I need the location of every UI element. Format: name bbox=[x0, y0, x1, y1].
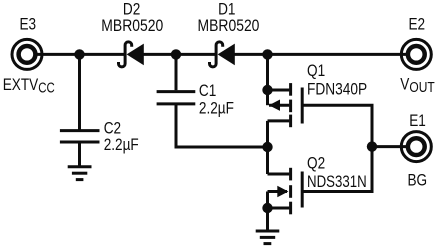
label E3 bbox=[20, 15, 37, 34]
label Q2 bbox=[307, 154, 325, 173]
wire Q2 body-source to ground bbox=[266, 192, 269, 230]
label C2 bbox=[104, 119, 121, 138]
svg-text:BG: BG bbox=[408, 171, 428, 190]
diode D2 MBR0520 bbox=[119, 42, 144, 67]
svg-text:2.2µF: 2.2µF bbox=[199, 99, 234, 118]
wire D2 to node B bbox=[143, 53, 176, 56]
label C1 bbox=[199, 82, 216, 101]
ground under C2 bbox=[68, 167, 92, 180]
label D1 bbox=[218, 0, 235, 19]
svg-text:MBR0520: MBR0520 bbox=[101, 17, 163, 36]
label D2 bbox=[123, 0, 140, 19]
wire node A to D2 bbox=[80, 53, 127, 56]
ground under Q2 bbox=[256, 231, 280, 244]
wire Q2 gate to node G bbox=[304, 147, 373, 192]
wire C2 bottom to ground bbox=[78, 142, 81, 166]
label E2 bbox=[409, 15, 426, 34]
wire C1 bottom to node E bbox=[176, 104, 268, 147]
wire node C to E2 bbox=[268, 53, 410, 56]
svg-text:E1: E1 bbox=[409, 112, 426, 131]
junction node E bbox=[262, 142, 272, 152]
svg-text:E2: E2 bbox=[409, 15, 426, 34]
wire node A down to C2 bbox=[78, 54, 81, 129]
wire E3 to node A bbox=[34, 53, 80, 56]
terminal E3 bbox=[12, 39, 42, 69]
label 2.2uF (C1) bbox=[199, 99, 234, 118]
wire node B down to C1 bbox=[175, 54, 178, 90]
junction node A bbox=[74, 49, 84, 59]
label VOUT bbox=[400, 75, 434, 95]
svg-text:Q1: Q1 bbox=[307, 62, 325, 81]
svg-text:VOUT: VOUT bbox=[400, 75, 434, 95]
junction node G bbox=[367, 141, 377, 151]
junction node B bbox=[171, 49, 181, 59]
capacitor C1 bbox=[157, 92, 196, 104]
label E1 bbox=[409, 112, 426, 131]
svg-text:EXTVCC: EXTVCC bbox=[3, 75, 55, 95]
transistor Q2 NDS331N bbox=[268, 168, 303, 215]
wire node C down to Q1 bbox=[266, 54, 269, 105]
transistor Q1 FDN340P bbox=[268, 83, 303, 127]
label MBR0520 (D2) bbox=[101, 17, 163, 36]
label EXTVCC bbox=[3, 75, 55, 95]
junction node C bbox=[262, 49, 272, 59]
svg-text:NDS331N: NDS331N bbox=[307, 173, 367, 192]
capacitor C2 bbox=[60, 131, 100, 142]
label 2.2uF (C2) bbox=[104, 136, 139, 155]
wire node G to E1 bbox=[372, 145, 409, 148]
svg-text:E3: E3 bbox=[20, 15, 37, 34]
terminal E1 bbox=[401, 132, 431, 162]
wire Q1 source to node E to Q2 drain bbox=[266, 121, 269, 174]
label NDS331N bbox=[307, 173, 367, 192]
svg-text:MBR0520: MBR0520 bbox=[198, 17, 260, 36]
svg-text:Q2: Q2 bbox=[307, 154, 325, 173]
wire Q1 gate to node G bbox=[304, 105, 373, 146]
junction node F bbox=[262, 203, 272, 213]
junction node D bbox=[262, 85, 272, 95]
label BG bbox=[408, 171, 428, 190]
svg-text:FDN340P: FDN340P bbox=[307, 80, 367, 99]
wire node B to D1 bbox=[176, 53, 217, 56]
svg-text:C1: C1 bbox=[199, 82, 216, 101]
label FDN340P bbox=[307, 80, 367, 99]
terminal E2 bbox=[401, 39, 431, 69]
svg-text:2.2µF: 2.2µF bbox=[104, 136, 139, 155]
label Q1 bbox=[307, 62, 325, 81]
wire D1 to node C bbox=[234, 53, 268, 56]
label MBR0520 (D1) bbox=[198, 17, 260, 36]
diode D1 MBR0520 bbox=[210, 42, 235, 67]
